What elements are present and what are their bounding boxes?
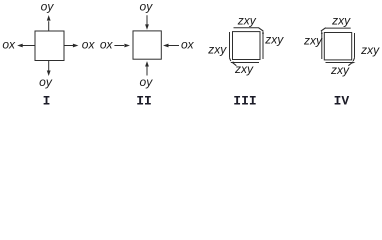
svg-text:oy: oy xyxy=(140,0,154,14)
svg-text:zxy: zxy xyxy=(207,42,227,56)
svg-text:III: III xyxy=(233,94,256,109)
svg-text:zxy: zxy xyxy=(237,13,257,27)
svg-text:ox: ox xyxy=(181,37,195,51)
svg-text:ox: ox xyxy=(82,37,96,51)
svg-text:zxy: zxy xyxy=(330,63,350,77)
svg-text:zxy: zxy xyxy=(331,14,351,28)
svg-text:oy: oy xyxy=(140,75,154,89)
svg-text:II: II xyxy=(136,94,152,109)
svg-text:oy: oy xyxy=(39,75,53,89)
svg-text:zxy: zxy xyxy=(303,33,323,47)
svg-text:IV: IV xyxy=(334,94,350,109)
svg-text:ox: ox xyxy=(100,37,114,51)
svg-text:zxy: zxy xyxy=(264,33,284,47)
svg-text:ox: ox xyxy=(2,37,16,51)
svg-text:oy: oy xyxy=(41,0,55,14)
svg-text:zxy: zxy xyxy=(360,43,380,57)
svg-text:I: I xyxy=(43,94,51,109)
svg-text:zxy: zxy xyxy=(234,62,254,76)
